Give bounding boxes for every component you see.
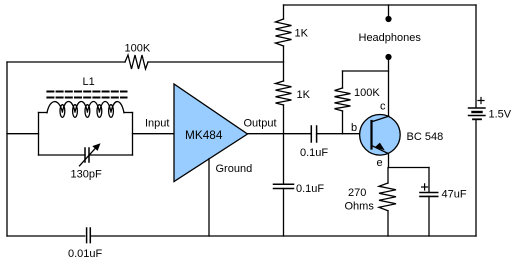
svg-text:BC 548: BC 548	[407, 131, 444, 143]
resistor R5 270 Ohms	[379, 183, 396, 211]
tank right vertical	[132, 113, 134, 156]
svg-text:Ohms: Ohms	[345, 201, 375, 213]
resistor R2 1K upper	[276, 19, 292, 46]
svg-text:47uF: 47uF	[442, 189, 467, 201]
svg-text:b: b	[351, 122, 357, 134]
ferrite core dashes of L1	[47, 92, 126, 98]
svg-text:1K: 1K	[295, 28, 309, 40]
svg-text:100K: 100K	[125, 43, 151, 55]
wire bias 100K lower lead to base	[342, 111, 344, 134]
inductor L1 coil	[47, 102, 124, 118]
svg-text:0.1uF: 0.1uF	[300, 147, 328, 159]
capacitor C3 0.1uF coupling	[311, 126, 316, 142]
wire decoupling cap to ground rail	[283, 189, 285, 237]
tank circuit: wire feed from left rail	[7, 133, 39, 135]
svg-text:c: c	[380, 101, 386, 113]
battery B1 1.5V	[469, 98, 486, 120]
svg-text:Output: Output	[244, 118, 277, 130]
transistor Q1 BC548 body	[360, 115, 401, 156]
wire 1K top lead	[283, 5, 285, 19]
wire bottom ground rail right	[91, 235, 476, 237]
svg-text:1K: 1K	[297, 89, 311, 101]
svg-text:130pF: 130pF	[71, 169, 102, 181]
transistor collector stroke	[372, 116, 389, 122]
wire MK484 ground lead	[208, 159, 210, 236]
wire 1K lower bottom lead to output node	[283, 105, 285, 134]
svg-text:MK484: MK484	[185, 128, 223, 142]
wire bias 100K top connection	[343, 70, 389, 72]
transistor emitter stroke with arrow	[372, 143, 389, 154]
svg-text:L1: L1	[83, 76, 95, 88]
wire left side vertical	[6, 62, 8, 236]
wire emitter down to node	[388, 154, 390, 168]
wire 270 resistor to ground rail	[387, 211, 389, 236]
tank top-left step	[39, 112, 48, 114]
wire top supply rail	[284, 4, 477, 6]
headphones bottom terminal dot	[385, 54, 391, 60]
svg-text:Ground: Ground	[216, 163, 253, 175]
wire 47uF top lead	[428, 168, 430, 193]
wire tank to MK484 input	[133, 133, 175, 135]
svg-text:e: e	[377, 157, 383, 169]
tank bottom wire right of cap	[89, 154, 133, 156]
tank top-right step	[124, 112, 133, 114]
wire 100K feedback left segment	[7, 61, 125, 63]
headphones top terminal dot	[385, 16, 391, 22]
wire bias 100K upper lead	[342, 71, 344, 88]
tank bottom wire left of cap	[39, 154, 86, 156]
wire between 1K resistors	[283, 46, 285, 81]
wire output node down to decoupling cap	[283, 134, 285, 185]
variable capacitor VC1 130pF plates	[85, 148, 89, 162]
tank left vertical	[38, 113, 40, 156]
resistor R1 100K feedback	[125, 55, 148, 69]
capacitor C4 47uF electrolytic	[420, 184, 438, 197]
svg-text:Input: Input	[145, 118, 169, 130]
wire right side lower (battery to bottom rail)	[475, 120, 477, 236]
wire 100K feedback right segment	[148, 61, 284, 63]
wire bottom ground rail left	[7, 235, 85, 237]
variable capacitor arrow	[80, 143, 101, 166]
capacitor C2 0.1uF decoupling	[274, 184, 294, 188]
capacitor 0.01uF	[87, 228, 91, 243]
svg-text:270: 270	[348, 187, 366, 199]
wire emitter node to 47uF	[389, 167, 430, 169]
wire collector up to headphone terminal	[388, 57, 390, 116]
svg-text:1.5V: 1.5V	[489, 109, 512, 121]
op-amp U1 MK484 triangle	[174, 84, 248, 182]
wire emitter node into 270 resistor	[387, 168, 389, 184]
svg-text:Headphones: Headphones	[359, 32, 422, 44]
wire 47uF to ground rail	[428, 196, 430, 236]
resistor R3 1K lower	[276, 81, 292, 105]
svg-text:100K: 100K	[354, 87, 380, 99]
wire right side upper (to battery)	[475, 5, 477, 108]
svg-text:0.1uF: 0.1uF	[296, 183, 324, 195]
wire MK484 output	[248, 133, 312, 135]
wire coupling cap to transistor base	[317, 133, 372, 135]
headphones jack: wire from top rail	[388, 5, 390, 19]
svg-text:0.01uF: 0.01uF	[68, 248, 103, 260]
resistor R4 100K bias	[335, 88, 351, 111]
transistor base bar	[370, 121, 372, 149]
